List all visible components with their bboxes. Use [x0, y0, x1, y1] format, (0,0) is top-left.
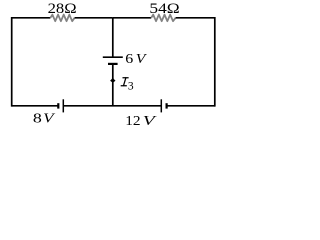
battery B2 8V short plate [57, 103, 59, 108]
wire bottom-left segment [12, 105, 59, 107]
resistor R2 54Ω zigzag [151, 15, 175, 22]
svg-text:3: 3 [128, 80, 134, 92]
svg-text:8: 8 [33, 111, 42, 126]
wire top-middle segment right of junction [113, 17, 151, 19]
wire middle branch upper [112, 18, 114, 57]
svg-text:V: V [136, 52, 148, 67]
wire top-left segment [12, 17, 51, 19]
wire top-middle segment [75, 17, 113, 19]
wire middle branch lower [112, 64, 114, 106]
wire right side [214, 17, 216, 107]
wire top-right segment [176, 17, 215, 19]
svg-text:12: 12 [125, 113, 140, 128]
battery B2 8V long plate [62, 99, 64, 112]
svg-text:V: V [43, 111, 56, 126]
battery B3 12V short plate [166, 103, 168, 108]
svg-text:28Ω: 28Ω [48, 1, 77, 17]
svg-text:V: V [143, 113, 158, 129]
svg-text:54Ω: 54Ω [149, 1, 180, 17]
battery B1 6V long plate [103, 56, 123, 58]
wire bottom-right segment [167, 105, 215, 107]
battery B3 12V long plate [160, 99, 162, 112]
resistor R1 28Ω zigzag [50, 15, 74, 22]
label I3 [121, 78, 128, 86]
current arrow I3 head [110, 77, 115, 83]
battery B1 6V short plate [108, 63, 118, 65]
svg-text:6: 6 [125, 52, 134, 67]
wire bottom-middle segment [63, 105, 161, 107]
wire left side [11, 17, 13, 107]
